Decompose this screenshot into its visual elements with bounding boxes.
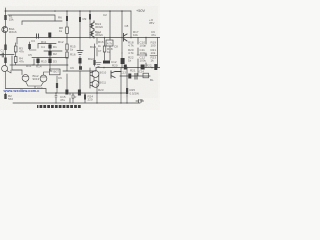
- resistor R22 blob: [154, 64, 157, 70]
- transistor x123: [124, 34, 128, 42]
- resistor R15: [66, 44, 68, 50]
- left resistor R4: [14, 57, 17, 63]
- wire left column: [5, 44, 7, 66]
- wire x80 column: [79, 38, 81, 68]
- resistor blob x94: [93, 60, 95, 65]
- transistor BG2: [22, 75, 29, 82]
- left lower stage wires: [12, 56, 22, 75]
- resistor R24: [84, 95, 86, 100]
- scan noise: [0, 0, 1, 1]
- box component BG7: [50, 69, 61, 75]
- capacitor blob x66: [65, 90, 68, 95]
- sub wire below lower rail: [120, 68, 150, 77]
- wire x80 branch: [79, 11, 81, 38]
- wire second top line: [8, 15, 55, 21]
- diode D1: [48, 45, 51, 49]
- input transistor: [2, 66, 8, 72]
- box component on sub wire: [143, 73, 149, 78]
- wire x122: [121, 11, 123, 38]
- wire x94.5: [94, 44, 96, 66]
- cap C14 plates: [135, 74, 137, 80]
- wire x110: [109, 11, 111, 38]
- node dots top rail: [5, 10, 123, 12]
- wire input lead: [0, 54, 2, 56]
- wire right edge vertical: [157, 38, 159, 68]
- wire x97 stub: [96, 84, 98, 93]
- ground rail: [13, 102, 140, 104]
- diode D3: [48, 59, 51, 64]
- lower mid rail: [50, 65, 160, 71]
- diode D2: [48, 51, 51, 56]
- capacitor C5 blob: [28, 44, 31, 49]
- wire left vertical: [5, 8, 7, 26]
- resistor R2b: [4, 58, 6, 64]
- transistor BG2b pair: [40, 75, 47, 82]
- output transistor BG11: [92, 81, 99, 88]
- transistor blob x122: [121, 58, 125, 64]
- wire x80 x67 lower: [67, 65, 80, 93]
- resistor R7: [79, 17, 81, 22]
- left resistor R3: [14, 46, 17, 52]
- wire x122 column: [121, 38, 123, 68]
- capacitor blob x57: [56, 83, 58, 88]
- transistor BG4: [90, 31, 94, 39]
- resistor R1: [4, 15, 6, 20]
- resistor R8: [66, 27, 69, 34]
- wire: [0, 43, 34, 65]
- resistor R16: [66, 52, 68, 58]
- resistor R13: [36, 59, 39, 64]
- driver transistor mid bottom: [111, 71, 121, 78]
- resistor R2a: [4, 45, 6, 51]
- wire x146: [145, 38, 147, 68]
- wire differential pair emitters: [23, 72, 49, 89]
- wire top rail: [5, 10, 131, 12]
- capacitor C15: [55, 93, 57, 99]
- wire x138: [137, 38, 139, 68]
- wire input transistor leads: [6, 70, 12, 89]
- resistor R25: [126, 88, 128, 94]
- capacitor C1 plates: [2, 53, 3, 57]
- small grey value labels: [1, 13, 157, 102]
- wire x131 corner: [130, 11, 132, 38]
- resistor R9: [89, 14, 91, 20]
- output transistor BG10: [92, 71, 99, 78]
- diode blob x80: [79, 58, 82, 64]
- resistor R18a: [103, 46, 106, 52]
- wire x121 vertical: [120, 68, 122, 93]
- transistor BG3: [90, 21, 94, 30]
- capacitor C13 blob: [128, 74, 131, 79]
- wire mid rail: [17, 38, 160, 45]
- wire x90 branch: [89, 11, 91, 38]
- resistor R5: [66, 16, 68, 21]
- separator lines right column: [137, 54, 157, 57]
- bottom left rail: [6, 89, 128, 94]
- blob on lower rail x81: [79, 66, 82, 70]
- wire x67 column: [66, 38, 68, 65]
- wire output pair bases: [90, 68, 99, 88]
- wire x67 branch: [66, 11, 68, 38]
- ground symbol x97 and wire: [96, 38, 101, 67]
- caption: [37, 105, 81, 108]
- ground symbol x80: [77, 51, 83, 55]
- wire: [5, 33, 7, 45]
- wire stubs below bottom rail: [70, 93, 85, 101]
- capacitor C3 plates: [37, 34, 39, 38]
- wire C5 stubs: [30, 42, 37, 50]
- wire third line: [22, 21, 62, 25]
- wire x127 vertical: [126, 76, 128, 96]
- transistor BG1: [2, 27, 8, 33]
- output terminal: [136, 100, 144, 103]
- wire x104 x110 columns: [105, 38, 111, 60]
- wire x57 column: [56, 76, 58, 93]
- resistor R2 bottom left: [5, 93, 7, 94]
- boxed label mid right: [106, 40, 113, 46]
- resistor R21 blob: [124, 65, 127, 70]
- wire x122 stub: [121, 53, 123, 58]
- capacitor C11 blob: [141, 65, 145, 70]
- wire bias network: [32, 44, 68, 66]
- transistor blob on mid rail: [48, 33, 51, 38]
- resistor outline x72: [72, 95, 74, 98]
- capacitor C12 dark bar: [103, 61, 110, 64]
- paper background: [0, 0, 160, 110]
- capacitor blob x79: [78, 90, 81, 96]
- ground stubs: [56, 93, 127, 103]
